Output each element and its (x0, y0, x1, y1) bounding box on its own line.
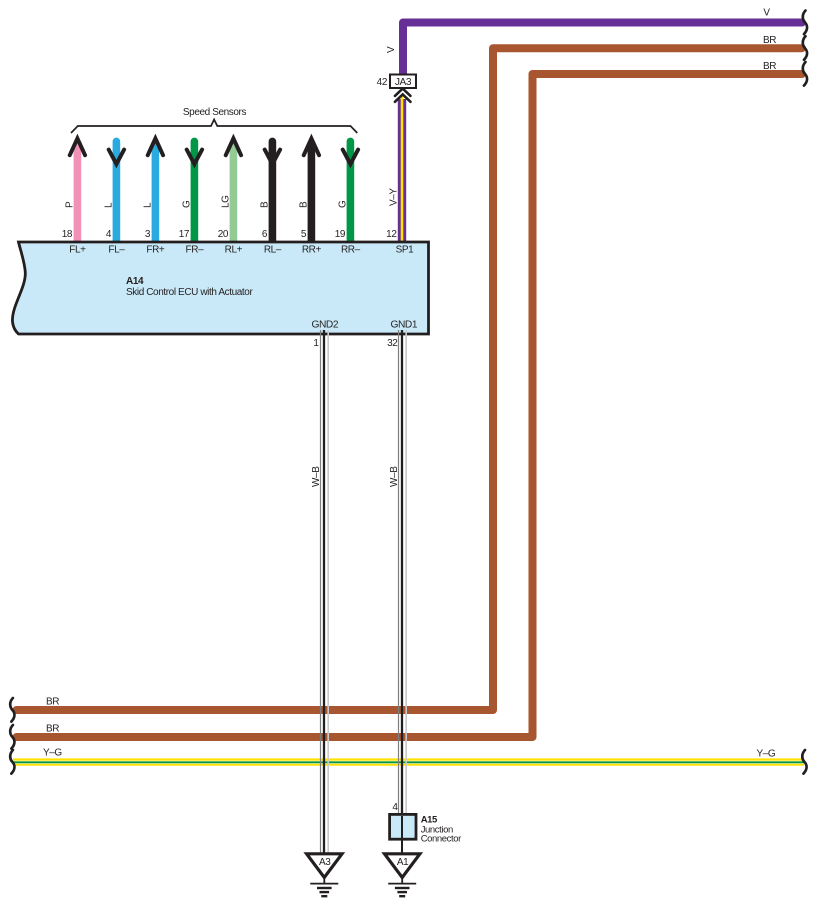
ECU A14 Skid Control ECU with Actuator (box with torn left edge) (12, 242, 428, 334)
wire through A15 (401, 816, 403, 853)
svg-text:V–Y: V–Y (389, 188, 400, 206)
wire FL- sensor wire L, pin 4 (103, 141, 124, 242)
svg-text:RR+: RR+ (302, 245, 322, 256)
ground A3 (307, 854, 342, 878)
svg-text:42: 42 (377, 77, 388, 88)
svg-text:L: L (142, 202, 153, 208)
svg-text:32: 32 (387, 338, 398, 349)
wire V (violet): from right-edge break to JA3 connector (403, 23, 802, 76)
svg-text:RL+: RL+ (225, 245, 243, 256)
wire W-B from GND1 pin 32 down to junction connector A15 (398, 330, 400, 814)
wire FR- sensor wire G, pin 17 (179, 141, 202, 242)
break symbol left edge on Y-G wire (10, 750, 14, 774)
svg-text:GND2: GND2 (311, 319, 338, 330)
wire BR #1: right-edge break, down at x=493, left to left-edge break (17, 48, 803, 710)
svg-text:18: 18 (62, 229, 73, 240)
ground A1 (385, 854, 420, 878)
wire V-Y: from JA3 double chevron down to pin 12 SP1 (398, 99, 406, 242)
svg-text:B: B (298, 201, 309, 208)
svg-text:17: 17 (179, 229, 190, 240)
svg-text:L: L (103, 202, 114, 208)
svg-text:Y–G: Y–G (43, 748, 62, 759)
svg-text:BR: BR (46, 724, 59, 735)
svg-text:20: 20 (218, 229, 229, 240)
svg-text:P: P (64, 201, 75, 208)
svg-text:4: 4 (106, 229, 112, 240)
svg-text:A1: A1 (397, 857, 409, 868)
svg-text:6: 6 (262, 229, 268, 240)
svg-text:Speed Sensors: Speed Sensors (183, 107, 247, 118)
svg-text:FL+: FL+ (69, 245, 86, 256)
wire BR #2: right-edge break, down at x=532.5, left to left-edge break (17, 74, 803, 737)
svg-text:G: G (181, 200, 192, 208)
svg-text:GND1: GND1 (390, 319, 417, 330)
wire FL+ sensor wire P, pin 18 (62, 138, 85, 242)
svg-text:FR–: FR– (186, 245, 205, 256)
svg-text:BR: BR (763, 35, 776, 46)
svg-text:A14: A14 (126, 276, 144, 287)
svg-text:RL–: RL– (264, 245, 282, 256)
wire RL- sensor wire B, pin 6 (259, 141, 280, 242)
break symbol right edge on Y-G wire (802, 750, 806, 774)
svg-text:V: V (763, 8, 770, 19)
svg-text:4: 4 (392, 802, 398, 813)
svg-text:BR: BR (763, 61, 776, 72)
svg-text:V: V (386, 46, 397, 53)
svg-text:Connector: Connector (421, 833, 461, 844)
brace over speed sensor wires (71, 120, 357, 134)
junction connector A15 (390, 814, 416, 839)
svg-text:FL–: FL– (108, 245, 125, 256)
svg-text:G: G (337, 200, 348, 208)
wire RL+ sensor wire LG, pin 20 (218, 138, 241, 242)
svg-text:B: B (259, 201, 270, 208)
svg-text:RR–: RR– (341, 245, 361, 256)
wire FR+ sensor wire L, pin 3 (142, 138, 163, 242)
svg-text:FR+: FR+ (146, 245, 165, 256)
svg-text:1: 1 (313, 338, 319, 349)
svg-text:W–B: W–B (311, 466, 322, 487)
break symbol right edge on BR wire 2 (803, 62, 807, 86)
break symbol left edge on BR wire 1 (10, 698, 14, 722)
wire Y-G: full-width horizontal, yellow with green stripe (13, 758, 804, 765)
svg-text:5: 5 (301, 229, 307, 240)
svg-text:SP1: SP1 (396, 245, 415, 256)
svg-text:3: 3 (145, 229, 151, 240)
svg-text:LG: LG (220, 195, 231, 208)
wire RR- sensor wire G, pin 19 (335, 141, 358, 242)
svg-text:JA3: JA3 (395, 77, 412, 88)
break symbol right edge on BR wire 1 (803, 36, 807, 60)
svg-text:12: 12 (386, 229, 397, 240)
wire RR+ sensor wire B, pin 5 (298, 138, 319, 242)
svg-text:19: 19 (335, 229, 346, 240)
svg-text:BR: BR (46, 697, 59, 708)
junction double chevron below JA3 (395, 89, 411, 96)
break symbol left edge on BR wire 2 (10, 725, 14, 749)
svg-text:Y–G: Y–G (757, 749, 776, 760)
svg-text:Skid Control ECU with Actuator: Skid Control ECU with Actuator (126, 287, 253, 298)
connector JA3 with pin 42 (390, 75, 416, 89)
svg-text:A3: A3 (319, 857, 331, 868)
break symbol right edge on V wire (803, 11, 807, 35)
svg-text:W–B: W–B (389, 466, 400, 487)
wire W-B from GND2 pin 1 down to ground A3 (320, 330, 322, 853)
